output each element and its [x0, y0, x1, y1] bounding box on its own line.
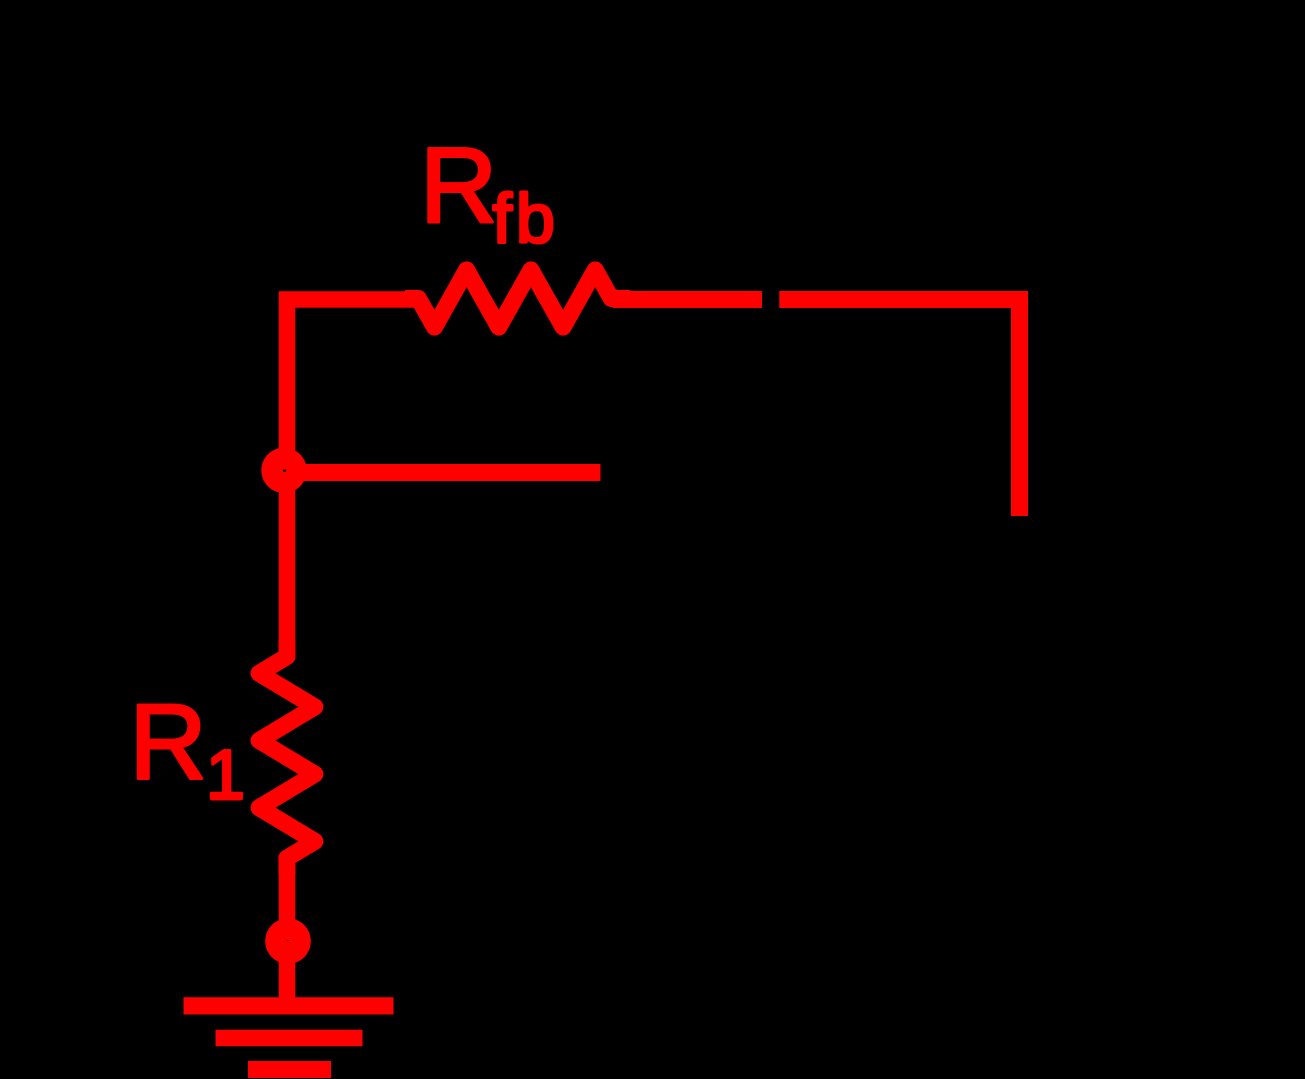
node B junction dot	[265, 918, 311, 964]
label R1	[130, 681, 245, 813]
node A junction dot	[261, 448, 306, 493]
wire: node A up to top-left corner and right to Rfb	[287, 300, 418, 471]
svg-text:R: R	[420, 125, 497, 245]
wire: Rfb right lead to gap	[613, 291, 763, 308]
wire: gap to top-right corner down to op-amp output	[779, 300, 1019, 517]
resistor Rfb	[405, 270, 630, 327]
label Rfb	[420, 125, 559, 258]
wire: node A to inverting input stub	[287, 464, 601, 481]
svg-text:1: 1	[206, 735, 245, 813]
svg-text:R: R	[130, 681, 207, 801]
wire: node B to ground	[279, 941, 296, 1006]
resistor R1	[259, 640, 315, 875]
wire: node A down to R1	[279, 470, 296, 657]
ground	[184, 1006, 394, 1070]
svg-text:fb: fb	[493, 180, 559, 258]
wire: R1 to node B	[279, 858, 296, 941]
